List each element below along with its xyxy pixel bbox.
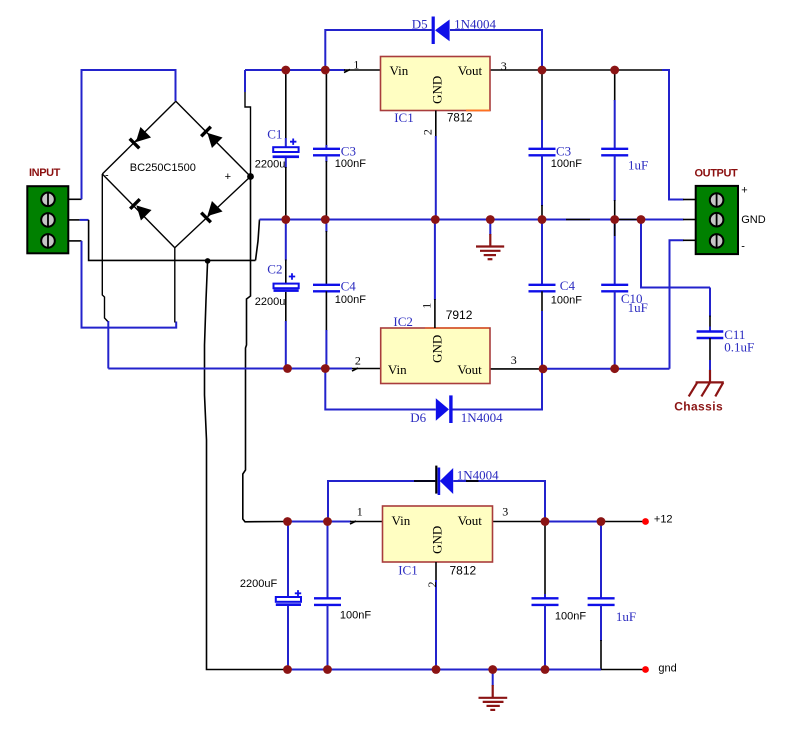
svg-text:1N4004: 1N4004 bbox=[461, 410, 503, 425]
ground earth symbol top bbox=[476, 220, 504, 260]
svg-text:7812: 7812 bbox=[447, 113, 473, 125]
diode bottom 1N4004 bbox=[414, 466, 479, 495]
op-amp regulator U/IC2 7912 box bbox=[381, 328, 490, 384]
wire ground rail bbox=[260, 219, 684, 221]
svg-text:3: 3 bbox=[501, 59, 507, 73]
wire bridge minus down to minus rail bbox=[102, 174, 108, 369]
svg-text:GND: GND bbox=[430, 76, 445, 104]
svg-text:100nF: 100nF bbox=[555, 610, 586, 622]
svg-text:2200u: 2200u bbox=[255, 296, 286, 308]
svg-text:Vin: Vin bbox=[390, 63, 409, 78]
svg-text:100nF: 100nF bbox=[335, 294, 366, 306]
bridge diode top-left bbox=[128, 127, 151, 150]
svg-text:C3: C3 bbox=[341, 143, 356, 158]
node +12 pin bbox=[642, 518, 649, 525]
wire bottom IC pin2 down bbox=[435, 562, 437, 670]
wire bottom positive rail bbox=[288, 521, 352, 523]
svg-text:1: 1 bbox=[353, 57, 359, 71]
wire IC2 pin1 gnd up bbox=[434, 220, 436, 329]
svg-text:Vin: Vin bbox=[392, 513, 411, 528]
svg-text:7812: 7812 bbox=[450, 564, 477, 578]
svg-text:Vout: Vout bbox=[458, 513, 483, 528]
chassis ground symbol bbox=[689, 370, 724, 397]
svg-text:GND: GND bbox=[741, 214, 766, 226]
wire IC1 pin3 to output rail bbox=[490, 69, 663, 71]
wire output plus stub black bbox=[683, 199, 696, 201]
ground earth symbol bottom bbox=[479, 670, 508, 710]
svg-text:+: + bbox=[741, 185, 747, 197]
svg-text:100nF: 100nF bbox=[551, 158, 582, 170]
wire IC2 pin3 bbox=[490, 368, 543, 370]
svg-text:100nF: 100nF bbox=[340, 609, 371, 621]
svg-text:Vout: Vout bbox=[457, 362, 482, 377]
bridge diode top-right bbox=[199, 125, 222, 148]
svg-text:Vin: Vin bbox=[388, 362, 407, 377]
wire bottom gnd rail bbox=[288, 669, 646, 671]
svg-text:1N4004: 1N4004 bbox=[457, 467, 499, 482]
wire positive rail left part bbox=[245, 69, 345, 71]
svg-text:GND: GND bbox=[430, 526, 445, 554]
svg-text:C2: C2 bbox=[267, 261, 282, 276]
svg-text:D5: D5 bbox=[412, 16, 428, 31]
capacitor C3 100nF left bbox=[313, 70, 340, 220]
node junction dots top section bbox=[281, 66, 645, 374]
wire bottom IC pin1 bbox=[350, 521, 383, 523]
wire ground rail stub into OUTPUT bbox=[683, 219, 696, 221]
node bridge plus vertex bbox=[247, 173, 254, 180]
wire output plus elbow down to OUTPUT terminal bbox=[662, 70, 684, 200]
wire bottom IC pin3 bbox=[493, 521, 546, 523]
svg-text:INPUT: INPUT bbox=[29, 167, 61, 179]
wire bottom diode branch bbox=[328, 481, 545, 522]
capacitor C1 2200u electrolytic bbox=[273, 70, 299, 220]
svg-text:IC2: IC2 bbox=[393, 314, 413, 329]
svg-text:C3: C3 bbox=[556, 143, 571, 158]
svg-text:C1: C1 bbox=[267, 126, 282, 141]
svg-text:1uF: 1uF bbox=[628, 300, 648, 315]
svg-text:gnd: gnd bbox=[658, 662, 676, 674]
svg-text:2: 2 bbox=[425, 582, 439, 588]
svg-text:1: 1 bbox=[357, 505, 363, 519]
capacitor 100nF bottom left bbox=[314, 522, 341, 670]
svg-text:1uF: 1uF bbox=[616, 609, 636, 624]
wire diode D5 branch bbox=[325, 30, 542, 70]
wire input terminal 1 to bridge AC top bbox=[82, 70, 176, 199]
svg-text:1: 1 bbox=[419, 303, 433, 309]
svg-text:OUTPUT: OUTPUT bbox=[695, 167, 739, 179]
svg-text:D6: D6 bbox=[410, 410, 426, 425]
capacitor 1uF top right bbox=[601, 70, 628, 220]
svg-text:-: - bbox=[741, 240, 745, 252]
wire diode D6 branch bbox=[325, 369, 542, 410]
capacitor C4 100nF left bbox=[313, 220, 340, 369]
svg-text:1uF: 1uF bbox=[628, 157, 648, 172]
svg-text:C4: C4 bbox=[560, 278, 576, 293]
svg-text:Chassis: Chassis bbox=[674, 399, 723, 413]
svg-text:7912: 7912 bbox=[446, 308, 473, 322]
capacitor C11 0.1uF bbox=[697, 288, 724, 371]
capacitor C2 2200u electrolytic bbox=[274, 220, 299, 369]
wire bridge AC bottom down bbox=[174, 248, 176, 323]
svg-text:100nF: 100nF bbox=[551, 294, 582, 306]
wire input terminal 2 down and across bbox=[89, 220, 256, 261]
svg-text:100nF: 100nF bbox=[335, 158, 366, 170]
node gnd pin bbox=[642, 666, 649, 673]
pin tick bottom pin1 bbox=[350, 521, 356, 524]
svg-text:2200u: 2200u bbox=[255, 159, 286, 171]
capacitor 1uF bottom bbox=[588, 522, 615, 670]
svg-text:-: - bbox=[105, 170, 109, 182]
wire input terminal 3 stub bbox=[68, 240, 82, 242]
node junction dots bottom section bbox=[283, 517, 605, 674]
capacitor 2200uF electrolytic bottom bbox=[276, 522, 301, 670]
bridge rectifier B1 BC250C1500 diamond bbox=[102, 101, 250, 248]
svg-text:0.1uF: 0.1uF bbox=[724, 339, 754, 354]
svg-text:IC1: IC1 bbox=[394, 110, 414, 125]
capacitor C3 100nF right bbox=[529, 70, 556, 220]
capacitor 100nF bottom right bbox=[532, 522, 559, 670]
bridge diode bottom-right bbox=[199, 201, 222, 224]
svg-text:2: 2 bbox=[420, 129, 434, 135]
wire minus rail left part bbox=[108, 368, 352, 370]
capacitor C10 1uF bbox=[601, 220, 628, 369]
diode D6 1N4004 bbox=[436, 395, 453, 423]
wire jog up to ground rail bbox=[256, 220, 260, 261]
op-amp regulator U/IC1 7812 box bbox=[381, 57, 491, 111]
svg-text:3: 3 bbox=[511, 353, 517, 367]
wire input terminal 1 stub bbox=[68, 198, 82, 200]
wire bottom rail to +12 bbox=[545, 521, 645, 523]
capacitor C4 100nF right bbox=[529, 220, 556, 369]
svg-text:GND: GND bbox=[429, 335, 444, 363]
connector J2 OUTPUT terminal block bbox=[696, 186, 738, 254]
bridge diode bottom-left bbox=[128, 197, 151, 220]
svg-text:1N4004: 1N4004 bbox=[454, 16, 496, 31]
wire ground rail black segment a bbox=[566, 219, 590, 221]
wire feed center tap to bottom gnd rail bbox=[205, 261, 288, 670]
svg-text:+12: +12 bbox=[654, 513, 673, 525]
svg-text:C4: C4 bbox=[341, 279, 357, 294]
pin tick IC1 pin1 bbox=[344, 70, 350, 73]
svg-text:3: 3 bbox=[502, 504, 508, 518]
wire input terminal 2 stub bbox=[68, 219, 89, 221]
wire IC1 pin1 bbox=[344, 69, 381, 71]
svg-text:2200uF: 2200uF bbox=[240, 578, 278, 590]
connector J1 INPUT terminal block bbox=[27, 186, 68, 253]
wire ground rail black segment b bbox=[615, 219, 641, 221]
op-amp regulator bottom IC1 7812 box bbox=[383, 506, 493, 562]
wire feed plus to bottom section rail bbox=[243, 177, 288, 522]
wire C11 branch from ground rail bbox=[641, 220, 710, 288]
wire IC2 pin2 bbox=[352, 368, 381, 370]
diode D5 1N4004 bbox=[432, 17, 450, 45]
svg-text:BC250C1500: BC250C1500 bbox=[130, 162, 196, 174]
svg-text:Vout: Vout bbox=[458, 63, 483, 78]
node junction black (206.5,261) bbox=[205, 258, 211, 264]
wire bridge plus up to positive rail bbox=[245, 70, 251, 177]
wire output minus stub black bbox=[683, 239, 696, 241]
wire IC1 pin2 gnd down bbox=[435, 111, 437, 220]
pin tick IC2 pin2 bbox=[352, 368, 358, 371]
svg-text:+: + bbox=[225, 171, 231, 183]
wire input terminal 3 to bridge AC bottom bbox=[82, 241, 177, 328]
svg-text:IC1: IC1 bbox=[398, 563, 418, 578]
wire output minus up to OUTPUT terminal bbox=[670, 240, 684, 368]
svg-text:2: 2 bbox=[355, 353, 361, 367]
wire minus rail right part bbox=[543, 368, 670, 370]
